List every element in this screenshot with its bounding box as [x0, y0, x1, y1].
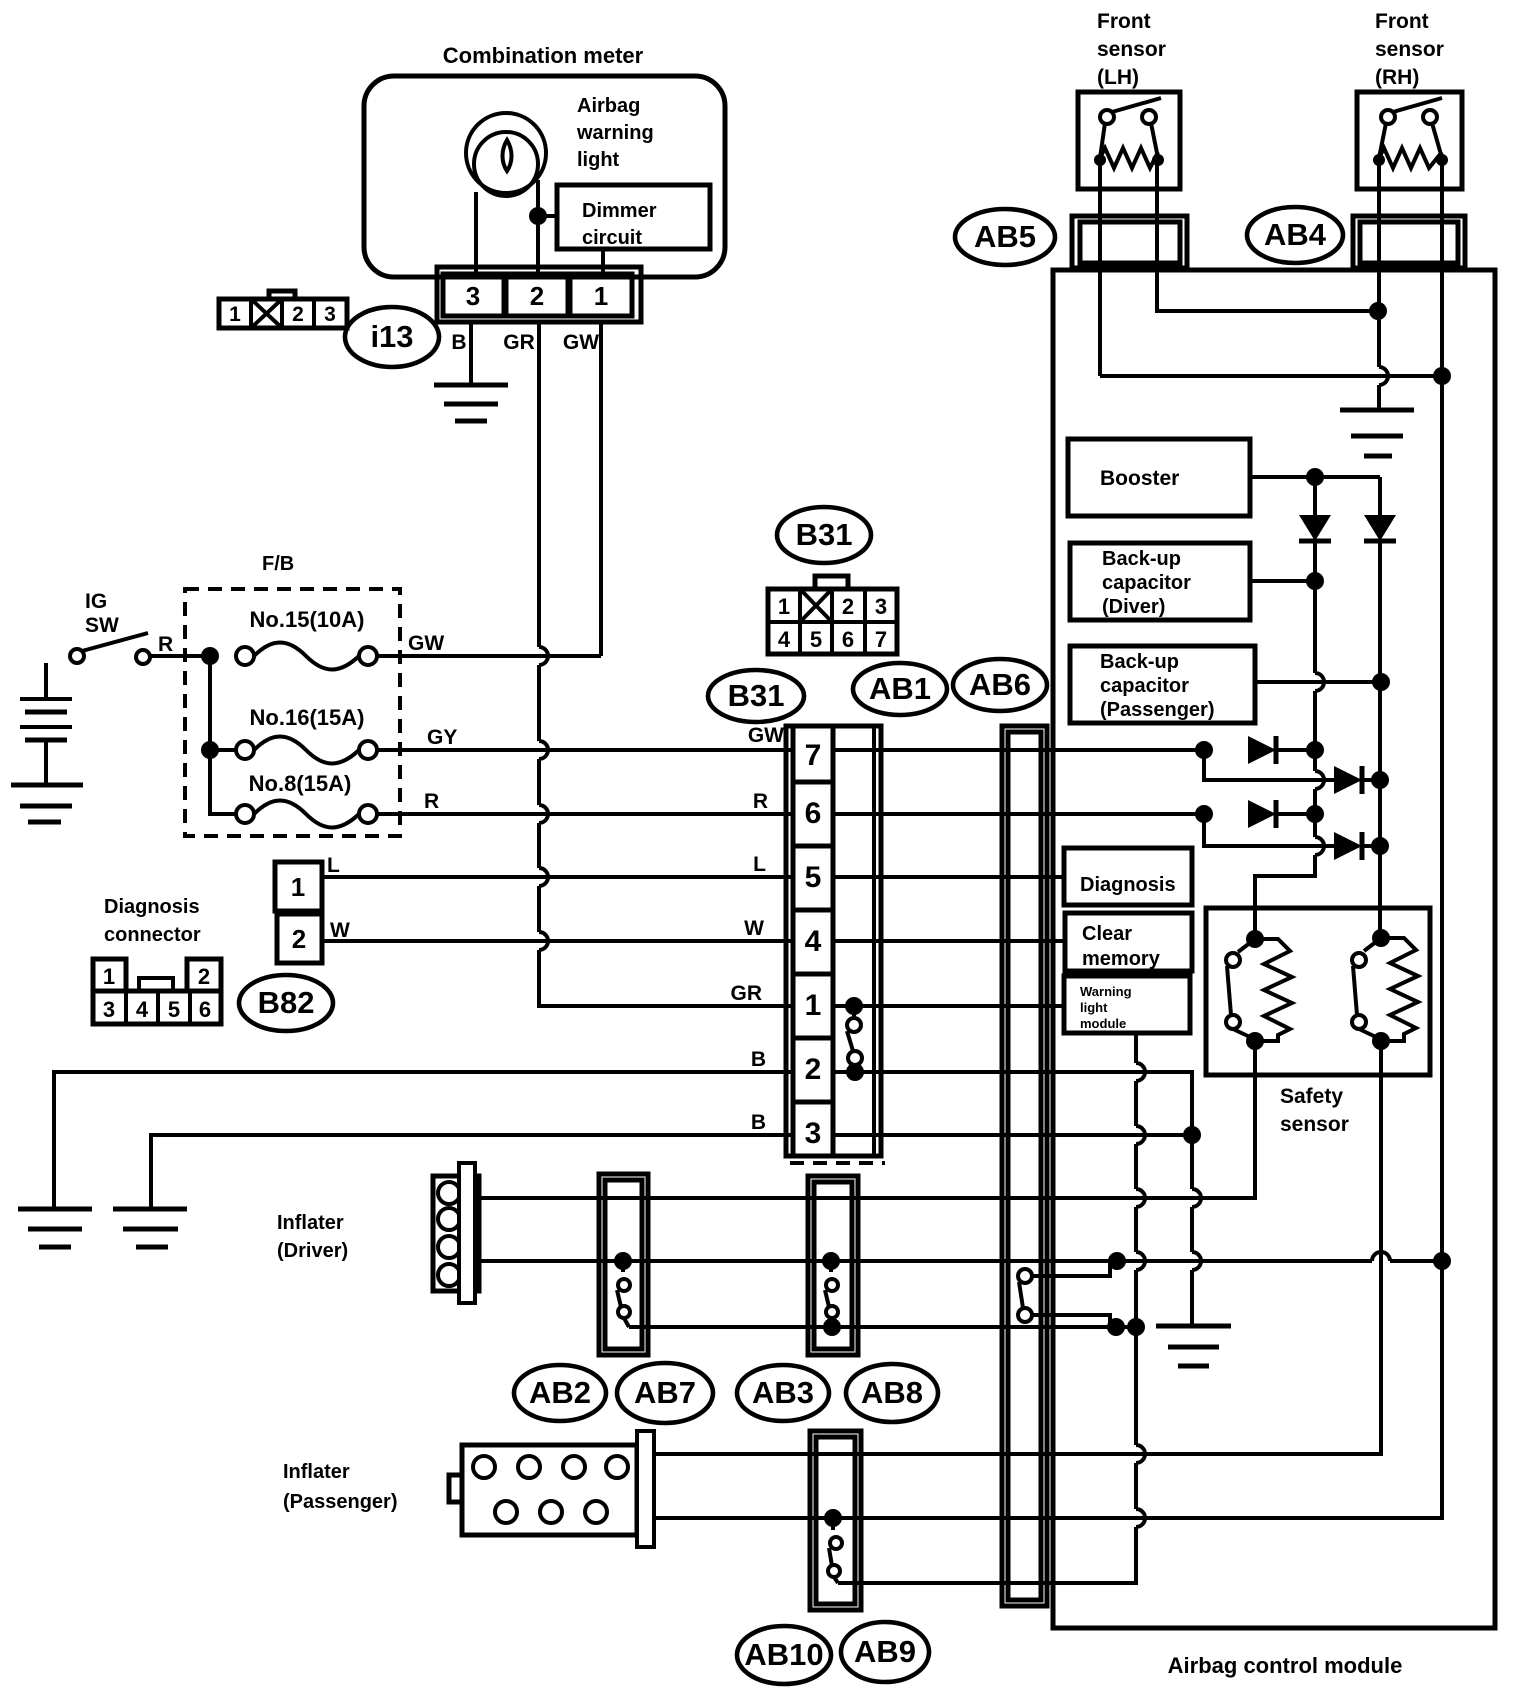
- svg-text:L: L: [753, 853, 766, 876]
- svg-text:connector: connector: [104, 924, 201, 946]
- svg-text:memory: memory: [1082, 948, 1161, 970]
- svg-text:AB4: AB4: [1264, 217, 1327, 252]
- svg-text:6: 6: [842, 627, 854, 652]
- svg-text:(RH): (RH): [1375, 66, 1419, 89]
- svg-text:4: 4: [805, 925, 822, 958]
- svg-text:6: 6: [805, 797, 822, 830]
- svg-text:3: 3: [875, 594, 887, 619]
- svg-text:2: 2: [198, 964, 210, 989]
- svg-text:W: W: [330, 919, 350, 942]
- svg-text:3: 3: [324, 303, 336, 326]
- svg-text:(Diver): (Diver): [1102, 596, 1165, 618]
- svg-text:GW: GW: [563, 331, 599, 354]
- svg-text:B: B: [751, 1048, 766, 1071]
- svg-text:R: R: [753, 790, 768, 813]
- svg-text:No.15(10A): No.15(10A): [250, 607, 365, 632]
- svg-text:(Driver): (Driver): [277, 1240, 348, 1262]
- svg-text:No.8(15A): No.8(15A): [249, 771, 352, 796]
- svg-text:GR: GR: [731, 982, 763, 1005]
- svg-text:AB2: AB2: [529, 1375, 591, 1410]
- svg-text:No.16(15A): No.16(15A): [250, 705, 365, 730]
- svg-text:B82: B82: [258, 985, 315, 1020]
- svg-text:module: module: [1080, 1016, 1126, 1031]
- svg-text:3: 3: [466, 281, 480, 311]
- svg-text:capacitor: capacitor: [1102, 572, 1191, 594]
- svg-text:IG: IG: [85, 590, 107, 613]
- svg-text:Back-up: Back-up: [1102, 548, 1181, 570]
- svg-text:Diagnosis: Diagnosis: [1080, 874, 1176, 896]
- svg-text:R: R: [158, 633, 173, 656]
- svg-text:AB1: AB1: [869, 671, 931, 706]
- svg-text:(Passenger): (Passenger): [1100, 699, 1215, 721]
- svg-text:SW: SW: [85, 614, 119, 637]
- svg-text:AB3: AB3: [752, 1375, 814, 1410]
- svg-text:GR: GR: [503, 331, 535, 354]
- svg-text:4: 4: [136, 997, 149, 1022]
- svg-text:3: 3: [103, 997, 115, 1022]
- svg-text:1: 1: [229, 303, 241, 326]
- svg-text:5: 5: [168, 997, 180, 1022]
- svg-text:AB6: AB6: [969, 667, 1031, 702]
- svg-text:Dimmer: Dimmer: [582, 200, 657, 222]
- svg-text:AB5: AB5: [974, 219, 1036, 254]
- svg-text:2: 2: [805, 1053, 822, 1086]
- svg-text:AB8: AB8: [861, 1375, 923, 1410]
- svg-text:(Passenger): (Passenger): [283, 1491, 398, 1513]
- svg-text:circuit: circuit: [582, 227, 642, 249]
- svg-text:Airbag control module: Airbag control module: [1168, 1653, 1403, 1678]
- svg-text:6: 6: [199, 997, 211, 1022]
- svg-text:Front: Front: [1375, 10, 1429, 33]
- svg-text:AB9: AB9: [854, 1634, 916, 1669]
- svg-text:Inflater: Inflater: [277, 1212, 344, 1234]
- svg-text:Combination meter: Combination meter: [443, 43, 644, 68]
- svg-text:2: 2: [530, 281, 544, 311]
- svg-text:2: 2: [292, 303, 304, 326]
- svg-text:1: 1: [594, 281, 608, 311]
- svg-text:3: 3: [805, 1117, 822, 1150]
- svg-text:B31: B31: [796, 517, 853, 552]
- svg-text:F/B: F/B: [262, 553, 294, 575]
- svg-text:sensor: sensor: [1097, 38, 1166, 61]
- svg-text:1: 1: [103, 964, 115, 989]
- svg-text:Warning: Warning: [1080, 984, 1132, 999]
- svg-text:2: 2: [292, 924, 306, 954]
- svg-text:GW: GW: [408, 632, 444, 655]
- svg-text:AB7: AB7: [634, 1375, 696, 1410]
- svg-text:5: 5: [805, 861, 822, 894]
- svg-text:capacitor: capacitor: [1100, 675, 1189, 697]
- svg-text:1: 1: [778, 594, 790, 619]
- svg-text:R: R: [424, 790, 439, 813]
- svg-text:5: 5: [810, 627, 822, 652]
- svg-text:B31: B31: [728, 678, 785, 713]
- svg-text:2: 2: [842, 594, 854, 619]
- svg-text:Back-up: Back-up: [1100, 651, 1179, 673]
- svg-text:GW: GW: [748, 724, 784, 747]
- svg-text:Front: Front: [1097, 10, 1151, 33]
- svg-text:Diagnosis: Diagnosis: [104, 896, 200, 918]
- svg-text:L: L: [327, 854, 340, 877]
- svg-text:sensor: sensor: [1280, 1113, 1349, 1136]
- svg-text:1: 1: [291, 872, 305, 902]
- svg-text:Safety: Safety: [1280, 1085, 1343, 1108]
- svg-text:1: 1: [805, 989, 822, 1022]
- svg-text:GY: GY: [427, 726, 457, 749]
- svg-text:Inflater: Inflater: [283, 1461, 350, 1483]
- svg-text:i13: i13: [370, 319, 413, 354]
- svg-text:7: 7: [805, 739, 822, 772]
- svg-text:warning: warning: [576, 122, 654, 144]
- svg-text:sensor: sensor: [1375, 38, 1444, 61]
- svg-text:B: B: [451, 331, 466, 354]
- svg-text:B: B: [751, 1111, 766, 1134]
- svg-text:7: 7: [875, 627, 887, 652]
- svg-text:W: W: [744, 917, 764, 940]
- svg-text:Airbag: Airbag: [577, 95, 640, 117]
- svg-text:AB10: AB10: [744, 1637, 823, 1672]
- svg-text:4: 4: [778, 627, 791, 652]
- svg-text:light: light: [577, 149, 620, 171]
- svg-text:Booster: Booster: [1100, 467, 1179, 490]
- svg-text:light: light: [1080, 1000, 1108, 1015]
- svg-text:Clear: Clear: [1082, 923, 1132, 945]
- svg-text:(LH): (LH): [1097, 66, 1139, 89]
